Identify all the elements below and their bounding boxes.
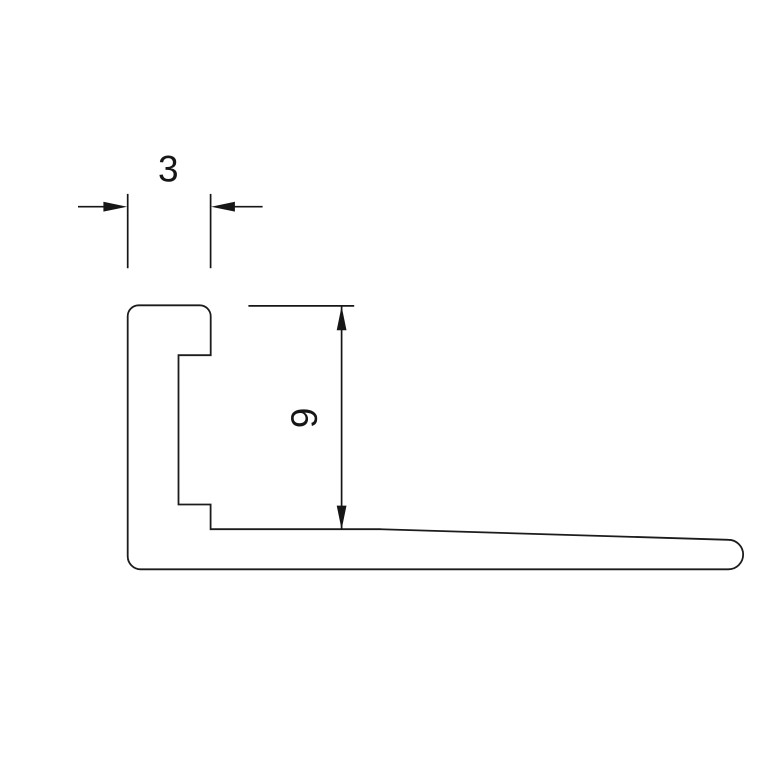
dimension 9 top arrowhead [337, 306, 347, 330]
dimension 9 top extension line [248, 305, 354, 307]
dimension 3 right arrowhead [211, 202, 235, 212]
profile outline [128, 305, 743, 569]
dimension 3 left leader line [78, 206, 105, 208]
dimension 3 right leader line [233, 206, 263, 208]
dimension 9 bottom arrowhead [337, 506, 347, 530]
dimension 9 dimension line [341, 306, 343, 529]
dimension 3 left arrowhead [103, 202, 127, 212]
svg-text:9: 9 [284, 408, 325, 429]
svg-text:3: 3 [158, 149, 179, 190]
dimension 3 left extension line [127, 194, 129, 268]
dimension 3 right extension line [210, 194, 212, 268]
